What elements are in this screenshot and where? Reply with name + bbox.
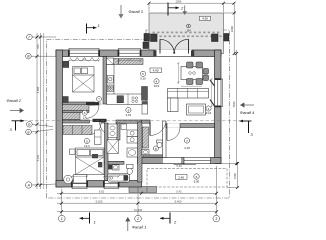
svg-text:4,585: 4,585 <box>36 86 40 93</box>
window jamb marks bottom wall <box>71 181 120 187</box>
outside stub right <box>224 34 229 42</box>
terrace right dim <box>237 164 239 188</box>
facade 3 label <box>118 5 143 19</box>
hall area label box <box>150 68 162 73</box>
kitchen fridge <box>107 58 114 65</box>
entrance jamb left <box>153 50 156 56</box>
bath door leaf bar <box>93 119 107 122</box>
porch entry symbol <box>187 24 191 28</box>
inner window dim right wall <box>211 79 213 107</box>
svg-text:1: 1 <box>61 217 63 221</box>
lower bath washbasin <box>113 165 120 170</box>
sink <box>107 76 113 84</box>
facade 2 label <box>7 99 25 113</box>
bed bedroom1 <box>73 67 95 93</box>
coffee table <box>187 104 206 115</box>
terrace door opening <box>163 157 181 164</box>
svg-text:2,6: 2,6 <box>83 115 87 119</box>
wardrobe room circle <box>82 110 87 115</box>
svg-text:500: 500 <box>36 44 40 49</box>
room circle bedroom1 <box>97 97 102 102</box>
section flag 2 top <box>167 3 169 16</box>
curtain marks at right window <box>210 80 215 86</box>
bedroom2 closet shelf <box>63 126 92 135</box>
svg-text:Фасад 3: Фасад 3 <box>129 10 144 14</box>
bath vanity <box>108 124 117 138</box>
svg-text:3,15: 3,15 <box>126 113 132 117</box>
bottom wall right section <box>138 158 222 164</box>
dining table <box>181 67 203 80</box>
entrance door right leaf arc <box>174 39 188 53</box>
interior wall bedroom1/wardrobe <box>63 102 96 105</box>
top dimension line <box>149 3 234 12</box>
svg-text:3: 3 <box>215 217 217 221</box>
WC washbasin <box>142 150 149 155</box>
room7 north wall <box>166 124 215 128</box>
svg-text:2280: 2280 <box>176 0 182 3</box>
svg-text:9,10: 9,10 <box>140 77 146 81</box>
left axis circle G <box>27 34 33 40</box>
bottom axis circle 2 <box>135 215 142 222</box>
dryer <box>127 137 138 144</box>
WC door arc <box>150 122 166 136</box>
desk bedroom2 <box>74 175 87 184</box>
chair circle <box>64 175 73 184</box>
porch column left <box>151 34 158 42</box>
bedroom2/bath wall <box>105 123 109 181</box>
svg-text:6,62: 6,62 <box>99 189 105 193</box>
shower tray <box>107 140 118 154</box>
bath tall cabinet <box>95 130 102 145</box>
bath shelf small <box>121 124 127 130</box>
shower partition hatched <box>117 123 120 140</box>
WC closet hatched <box>143 127 149 148</box>
porch elevation label box <box>200 16 211 20</box>
left axis circle B3 <box>26 129 32 135</box>
bath east hatched wall <box>138 122 143 182</box>
window bedroom2 bottom <box>72 180 87 189</box>
inner window dim marks top <box>69 60 141 62</box>
svg-text:2460: 2460 <box>230 25 234 32</box>
terrace window <box>184 157 211 164</box>
kitchen upper cabinet hatched <box>112 59 143 65</box>
bedroom1 door leaf <box>86 102 99 105</box>
left axis circle B2 <box>27 122 33 128</box>
TV unit <box>142 102 148 115</box>
section flag 1 bottom <box>89 213 91 224</box>
room7 circle <box>184 138 189 143</box>
dining dim leaders <box>177 63 179 84</box>
window jamb marks right wall <box>215 78 221 107</box>
wardrobe shelf upper <box>63 105 90 111</box>
svg-text:4,90: 4,90 <box>153 69 159 73</box>
svg-text:4,90: 4,90 <box>202 17 208 21</box>
washer <box>127 130 138 137</box>
kitchen tall counter <box>107 65 115 98</box>
svg-text:2: 2 <box>136 217 139 221</box>
svg-text:4,15: 4,15 <box>184 146 190 150</box>
svg-text:5,150: 5,150 <box>36 154 40 161</box>
svg-text:5,00: 5,00 <box>194 180 200 184</box>
toilet lower bath <box>127 164 134 168</box>
entrance double door opening in top wall <box>156 50 193 57</box>
entrance door left leaf arc <box>160 39 174 53</box>
interior hatched wall corridor/bath right <box>116 120 142 123</box>
svg-text:21,6: 21,6 <box>206 111 212 115</box>
kitchen bottom counter <box>107 94 147 105</box>
right wall <box>215 50 222 164</box>
WC east wall <box>163 121 167 158</box>
living sofa <box>168 89 209 99</box>
blanket dark a <box>92 154 98 158</box>
svg-text:7620: 7620 <box>232 101 236 108</box>
svg-text:5,42: 5,42 <box>176 189 182 193</box>
section 3-3 dashed line <box>24 120 240 122</box>
sofa left arm <box>168 98 179 112</box>
bedroom1 door arc <box>86 105 99 118</box>
interior wall stub corridor/bath <box>101 120 105 123</box>
entrance jamb right <box>191 50 194 56</box>
terrace room circle <box>194 174 199 179</box>
bottom axis circle 3 <box>213 215 220 222</box>
porch slab top-right <box>149 13 224 54</box>
left wall <box>56 50 63 187</box>
WC door leaf <box>149 122 151 136</box>
svg-text:5,40: 5,40 <box>177 164 183 168</box>
hob <box>107 85 113 92</box>
section flag 3 left <box>12 120 25 122</box>
wardrobe middle wall <box>63 111 90 113</box>
svg-text:10,600: 10,600 <box>134 208 143 212</box>
facade 1 label <box>125 217 146 231</box>
wardrobe shelf lower <box>63 113 81 120</box>
hall room circle <box>154 79 159 84</box>
window jamb marks top wall <box>68 50 142 56</box>
room circle kitchen <box>140 71 145 76</box>
left axis circle V <box>26 53 32 59</box>
svg-text:16,9: 16,9 <box>154 84 160 88</box>
svg-text:5,200: 5,200 <box>96 199 103 203</box>
bath mid wall <box>105 161 125 164</box>
svg-text:Фасад 1: Фасад 1 <box>132 225 146 229</box>
nightstand top <box>63 61 69 67</box>
left vertical dim lines <box>36 33 38 189</box>
bedroom2 door arc <box>90 123 102 135</box>
bottom axis circle 1 <box>59 215 66 222</box>
window living right <box>214 79 223 107</box>
section flag 2 bottom <box>169 213 171 224</box>
blanket dark b <box>98 162 102 167</box>
svg-text:2,40: 2,40 <box>178 175 184 179</box>
bedroom2 bed <box>76 148 105 175</box>
bottom dimension block <box>57 166 217 215</box>
svg-text:1980: 1980 <box>233 173 237 179</box>
outside stub left <box>144 34 150 42</box>
nightstand bottom <box>63 97 68 103</box>
section flag 1 top <box>86 24 88 34</box>
dining chairs <box>187 62 194 68</box>
svg-text:12,4: 12,4 <box>84 144 90 148</box>
interior wall corridor/bedroom2 <box>63 120 90 123</box>
svg-text:Фасад 4: Фасад 4 <box>240 111 254 115</box>
left axis circle A <box>26 182 32 188</box>
roof overhang dash-dot outline <box>47 30 230 198</box>
porch paving dots <box>153 32 222 38</box>
window kitchen top <box>119 48 141 57</box>
bathtub <box>108 174 130 182</box>
WC radiator bar <box>143 155 163 158</box>
right vertical dim porch <box>233 3 235 55</box>
nightstand bedroom2 <box>70 149 76 155</box>
room circle bedroom2 <box>84 138 89 143</box>
section flag 3 right <box>240 120 252 122</box>
svg-text:2,01: 2,01 <box>96 102 102 106</box>
facade 4 label <box>240 102 254 115</box>
wall stub left of porch <box>143 42 149 49</box>
WC room circle <box>153 146 158 151</box>
svg-text:1: 1 <box>98 23 100 28</box>
room circle corridor <box>126 107 131 112</box>
window bedroom1 top <box>69 48 99 57</box>
bath door arc <box>100 122 115 137</box>
WC top wall stub <box>142 120 151 123</box>
svg-text:5,400: 5,400 <box>175 199 182 203</box>
porch column right <box>212 34 219 42</box>
porch entry arrow <box>184 6 186 13</box>
exterior step block bottom center <box>129 187 157 193</box>
interior wall kitchen/bedroom1 <box>103 57 107 105</box>
svg-text:1: 1 <box>94 220 96 225</box>
kitchen end cabinet dark <box>142 87 148 101</box>
terrace steps <box>174 158 196 165</box>
curtain scallops under bedroom1 window <box>70 58 99 62</box>
terrace dashed outline bottom-right <box>147 169 227 188</box>
terrace area label box <box>176 174 188 179</box>
WC toilet <box>157 140 163 143</box>
bottom wall left section <box>56 181 142 188</box>
bath sink <box>127 148 138 157</box>
inner window dim marks bottom <box>72 176 119 178</box>
top wall <box>56 50 221 57</box>
window bath bottom <box>104 180 119 189</box>
right vertical dim wall <box>236 50 238 165</box>
living room circle <box>206 106 211 111</box>
svg-text:Фасад 2: Фасад 2 <box>7 99 22 103</box>
room7 door arc <box>167 128 180 141</box>
